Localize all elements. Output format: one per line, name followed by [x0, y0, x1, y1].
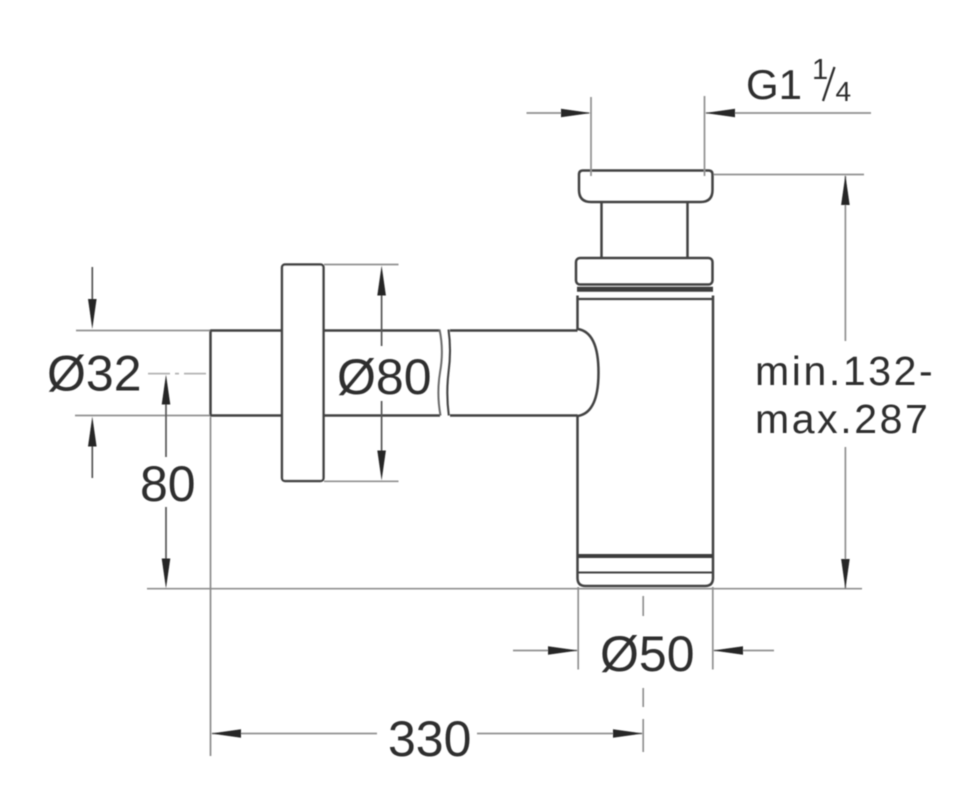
- extension line above cap left (G1 1/4): [590, 97, 592, 176]
- svg-text:1: 1: [812, 54, 828, 86]
- trap body top seam (thick): [577, 287, 713, 292]
- 80 dim upper shaft: [165, 404, 167, 457]
- svg-text:330: 330: [388, 711, 471, 767]
- min/max dim line upper shaft: [844, 176, 846, 341]
- min/max dim line lower shaft: [844, 447, 846, 588]
- svg-text:min.132-: min.132-: [755, 348, 935, 394]
- trap inlet cap (top nut): [579, 171, 713, 203]
- trap neck right line: [686, 202, 689, 258]
- extension line top right (min/max): [714, 174, 865, 176]
- Ø80 dim upper shaft: [381, 295, 383, 346]
- Ø80 dim lower shaft: [381, 401, 383, 451]
- pipe end dome inside trap: [578, 329, 599, 416]
- svg-text:G1: G1: [746, 61, 802, 108]
- svg-text:4: 4: [836, 76, 852, 107]
- arrow 330 right (right-pointing): [613, 729, 643, 738]
- arrow 80 bottom (down): [162, 559, 171, 589]
- wire: pipe bottom edge (break to trap body): [450, 414, 578, 417]
- trap body cup rim line: [578, 572, 714, 574]
- wire: pipe top edge (break to trap body): [450, 329, 578, 332]
- arrow Ø50 right (left-pointing): [713, 646, 743, 655]
- extension line bottom long (80 + min/max): [147, 588, 862, 590]
- G1 dim line left segment: [527, 112, 590, 114]
- Ø32 arrow shaft top: [91, 267, 93, 300]
- svg-text:Ø50: Ø50: [600, 626, 695, 682]
- trap collar (upper ring): [576, 258, 713, 285]
- Ø32 top extension line: [76, 330, 210, 332]
- wire: pipe top edge (left of flange): [211, 329, 283, 332]
- arrow Ø80 bottom (down): [377, 451, 386, 481]
- Ø32 bottom extension line: [75, 415, 210, 417]
- label G1 slash: [823, 67, 835, 101]
- arrow 80 top (up): [162, 375, 171, 405]
- arrow G1 left: [561, 109, 591, 118]
- wire: pipe break curve right: [447, 330, 450, 416]
- Ø50 dim line left: [513, 650, 577, 652]
- arrow min/max bottom (down): [841, 559, 850, 589]
- 330 left extension line: [210, 417, 212, 756]
- 330 dim line right segment: [477, 733, 642, 735]
- pipe centerline dashes: [148, 373, 207, 375]
- wall flange Ø80: [282, 265, 324, 482]
- trap centerline stub 3: [642, 719, 644, 752]
- wire: pipe bottom edge (flange to break): [324, 414, 440, 417]
- svg-text:max.287: max.287: [755, 396, 930, 442]
- arrow Ø80 top (up): [377, 266, 386, 296]
- svg-text:80: 80: [140, 456, 196, 512]
- wire: pipe bottom edge (left of flange): [211, 414, 283, 417]
- trap body left side upper segment: [576, 296, 579, 331]
- Ø50 right extension line: [712, 587, 714, 670]
- trap body lower seam (thick): [578, 554, 714, 558]
- arrow Ø32 bottom (up): [88, 417, 97, 447]
- trap neck left line: [600, 202, 603, 258]
- arrow Ø32 top (down): [88, 299, 97, 329]
- wire: pipe left end cap: [209, 330, 212, 417]
- trap centerline stub 2: [642, 688, 644, 707]
- wire: pipe break curve left: [438, 330, 442, 416]
- arrow min/max top (up): [841, 175, 850, 205]
- G1 dim line right segment: [706, 112, 871, 114]
- trap centerline stub 1: [642, 596, 644, 616]
- Ø50 left extension line: [577, 587, 579, 670]
- Ø80 top extension line: [324, 264, 399, 266]
- wire: pipe top edge (flange to break): [324, 329, 440, 332]
- trap body top edge line: [578, 298, 714, 300]
- arrow Ø50 left (right-pointing): [548, 646, 578, 655]
- Ø50 dim line right: [714, 650, 774, 652]
- arrow G1 right: [705, 109, 735, 118]
- trap body outline right and bottom: [578, 296, 714, 587]
- Ø80 bottom extension line: [324, 480, 399, 482]
- arrow 330 left (left-pointing): [211, 729, 241, 738]
- svg-text:Ø32: Ø32: [47, 346, 142, 402]
- extension line above cap right (G1 1/4): [704, 96, 706, 176]
- 80 dim lower shaft: [165, 507, 167, 559]
- svg-text:Ø80: Ø80: [337, 349, 432, 405]
- Ø32 arrow shaft bottom: [91, 446, 93, 478]
- 330 dim line left segment: [212, 733, 377, 735]
